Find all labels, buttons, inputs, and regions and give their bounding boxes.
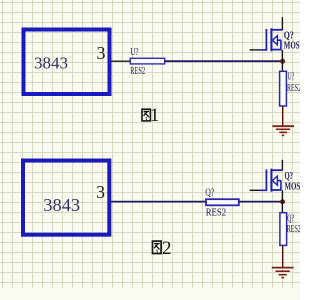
svg-text:U?: U? — [288, 71, 295, 82]
svg-text:1: 1 — [150, 105, 160, 126]
svg-text:RES2: RES2 — [287, 83, 300, 94]
wire pin3 to resistor U? (top) — [111, 60, 130, 62]
svg-text:3: 3 — [96, 182, 105, 202]
svg-text:3: 3 — [97, 43, 106, 63]
resistor U? RES2 (top gate pulldown) — [280, 71, 301, 106]
mosfet Q? MOSFET N (bottom) — [250, 160, 305, 213]
svg-text:MOSF: MOSF — [284, 41, 300, 52]
svg-text:2: 2 — [162, 238, 172, 259]
ic U1 3843 (top box) — [24, 30, 110, 95]
svg-text:RES2: RES2 — [206, 208, 227, 219]
resistor Q? RES2 (bottom series gate resistor) — [205, 187, 239, 218]
wire resistor to gate node (top) — [165, 60, 283, 62]
svg-text:MOSF: MOSF — [285, 181, 301, 192]
wire pulldown resistor to ground (top) — [282, 106, 284, 126]
svg-text:RES2: RES2 — [287, 224, 300, 235]
svg-text:3843: 3843 — [43, 195, 80, 215]
junction node (top) — [280, 59, 285, 64]
svg-text:Q?: Q? — [287, 213, 294, 224]
wire pulldown resistor to ground (bottom) — [282, 245, 284, 267]
wire pin3 to resistor Q? (bottom) — [111, 201, 206, 203]
wire resistor to gate node (bottom) — [239, 201, 283, 203]
junction node (bottom) — [280, 199, 285, 204]
label 图1 caption — [142, 105, 159, 126]
ground (bottom) — [272, 268, 294, 278]
resistor U? RES2 (top series gate resistor) — [130, 47, 165, 77]
svg-text:3843: 3843 — [34, 54, 68, 73]
mosfet Q? MOSFET N (top) — [250, 17, 304, 71]
svg-text:U?: U? — [130, 47, 139, 58]
ic U2 3843 (bottom box) — [23, 161, 109, 235]
resistor Q? RES2 (bottom gate pulldown) — [280, 213, 301, 246]
svg-text:RES2: RES2 — [130, 66, 145, 77]
ground (top) — [272, 126, 294, 135]
svg-text:Q?: Q? — [205, 187, 214, 198]
label 图2 caption — [153, 238, 172, 259]
